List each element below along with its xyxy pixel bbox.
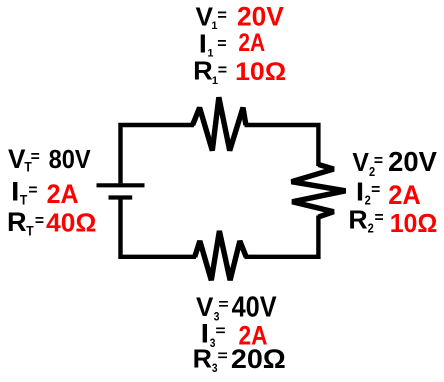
svg-text:40V: 40V [232,291,277,323]
label I1 equals [217,35,226,52]
svg-text:=: = [28,182,37,199]
svg-text:=: = [218,296,228,313]
value I1 2A [238,28,265,56]
svg-text:80V: 80V [49,145,91,174]
svg-text:=: = [215,323,225,340]
label V2 letter [352,149,369,178]
label VT equals [31,149,40,166]
svg-text:V: V [8,144,26,174]
svg-text:3: 3 [212,362,218,375]
svg-text:=: = [218,348,228,365]
label V3 equals [218,296,228,313]
svg-text:=: = [218,62,227,79]
label IT equals [28,182,37,199]
svg-text:V: V [196,292,214,322]
label R3 equals [218,348,228,365]
svg-text:=: = [374,210,383,227]
label R2 subscript [368,221,374,236]
resistor R1 (top) [193,97,246,150]
label V3 subscript [214,311,220,324]
value V1 20V [237,1,284,31]
label I1 letter [199,29,207,58]
svg-text:10Ω: 10Ω [390,209,438,238]
svg-text:R: R [193,56,213,85]
value RT 40ohm [46,208,96,238]
svg-text:R: R [348,205,367,235]
label I2 subscript [365,193,371,208]
label R1 letter [193,56,213,85]
label V1 letter [196,2,214,32]
label R2 letter [348,205,367,235]
value I2 2A [388,179,421,210]
label I3 equals [215,323,225,340]
value IT 2A [47,178,79,209]
label VT letter [8,144,26,174]
label R1 equals [218,62,227,79]
svg-text:40Ω: 40Ω [46,208,96,238]
resistor R3 (bottom) [195,231,247,280]
label V1 subscript [211,20,217,32]
svg-text:=: = [217,35,226,52]
value VT 80V [49,145,91,174]
value V2 20V [388,145,437,176]
label R3 letter [193,344,212,374]
label I2 equals [371,182,380,199]
svg-text:I: I [199,29,207,58]
svg-text:=: = [374,152,383,169]
label V2 subscript [369,164,375,179]
wire: top wire right of R1, top-right corner, right wire down to R2 [245,125,319,166]
wire: left-top segment, top-left corner, top wire to R1 [121,125,195,183]
label RT letter [7,207,27,237]
svg-text:T: T [20,192,28,208]
label I2 letter [356,177,364,206]
svg-text:=: = [31,149,40,166]
svg-text:2A: 2A [388,179,421,210]
svg-text:=: = [371,182,380,199]
svg-text:20V: 20V [237,1,284,31]
svg-text:R: R [7,207,27,237]
label I3 letter [201,319,209,349]
svg-text:V: V [352,149,369,178]
svg-text:I: I [11,177,19,207]
label V3 letter [196,292,214,322]
label RT subscript [26,223,34,239]
svg-text:2A: 2A [238,28,265,56]
svg-text:20Ω: 20Ω [231,344,286,374]
label R2 equals [374,210,383,227]
svg-text:=: = [35,212,44,229]
label V1 equals [217,7,227,25]
wire: bottom wire left of R3, bottom-left corner, left wire up to battery [121,199,197,256]
svg-text:20V: 20V [388,145,437,176]
value R2 10ohm [390,209,438,238]
label I1 subscript [207,48,213,60]
svg-text:=: = [217,7,227,25]
svg-text:R: R [193,344,212,374]
svg-text:2A: 2A [47,178,79,209]
value R3 20ohm [231,344,286,374]
battery VT short plate [109,195,133,199]
svg-text:I: I [356,177,364,206]
label V2 equals [374,152,383,169]
value R1 10ohm [235,59,286,86]
label R3 subscript [212,362,218,375]
resistor R2 (right) [292,164,346,217]
label RT equals [35,212,44,229]
svg-text:2: 2 [368,221,374,236]
battery VT long plate [97,183,145,187]
value V3 40V [232,291,277,323]
value I3 2A [239,322,268,351]
label R1 subscript [212,75,218,87]
label IT subscript [20,192,28,208]
label IT letter [11,177,19,207]
label VT subscript [24,159,32,175]
svg-text:T: T [26,223,34,239]
label I3 subscript [210,337,216,350]
wire: right wire below R2, bottom-right corner, bottom wire to R3 [245,216,319,257]
svg-text:10Ω: 10Ω [235,59,286,86]
